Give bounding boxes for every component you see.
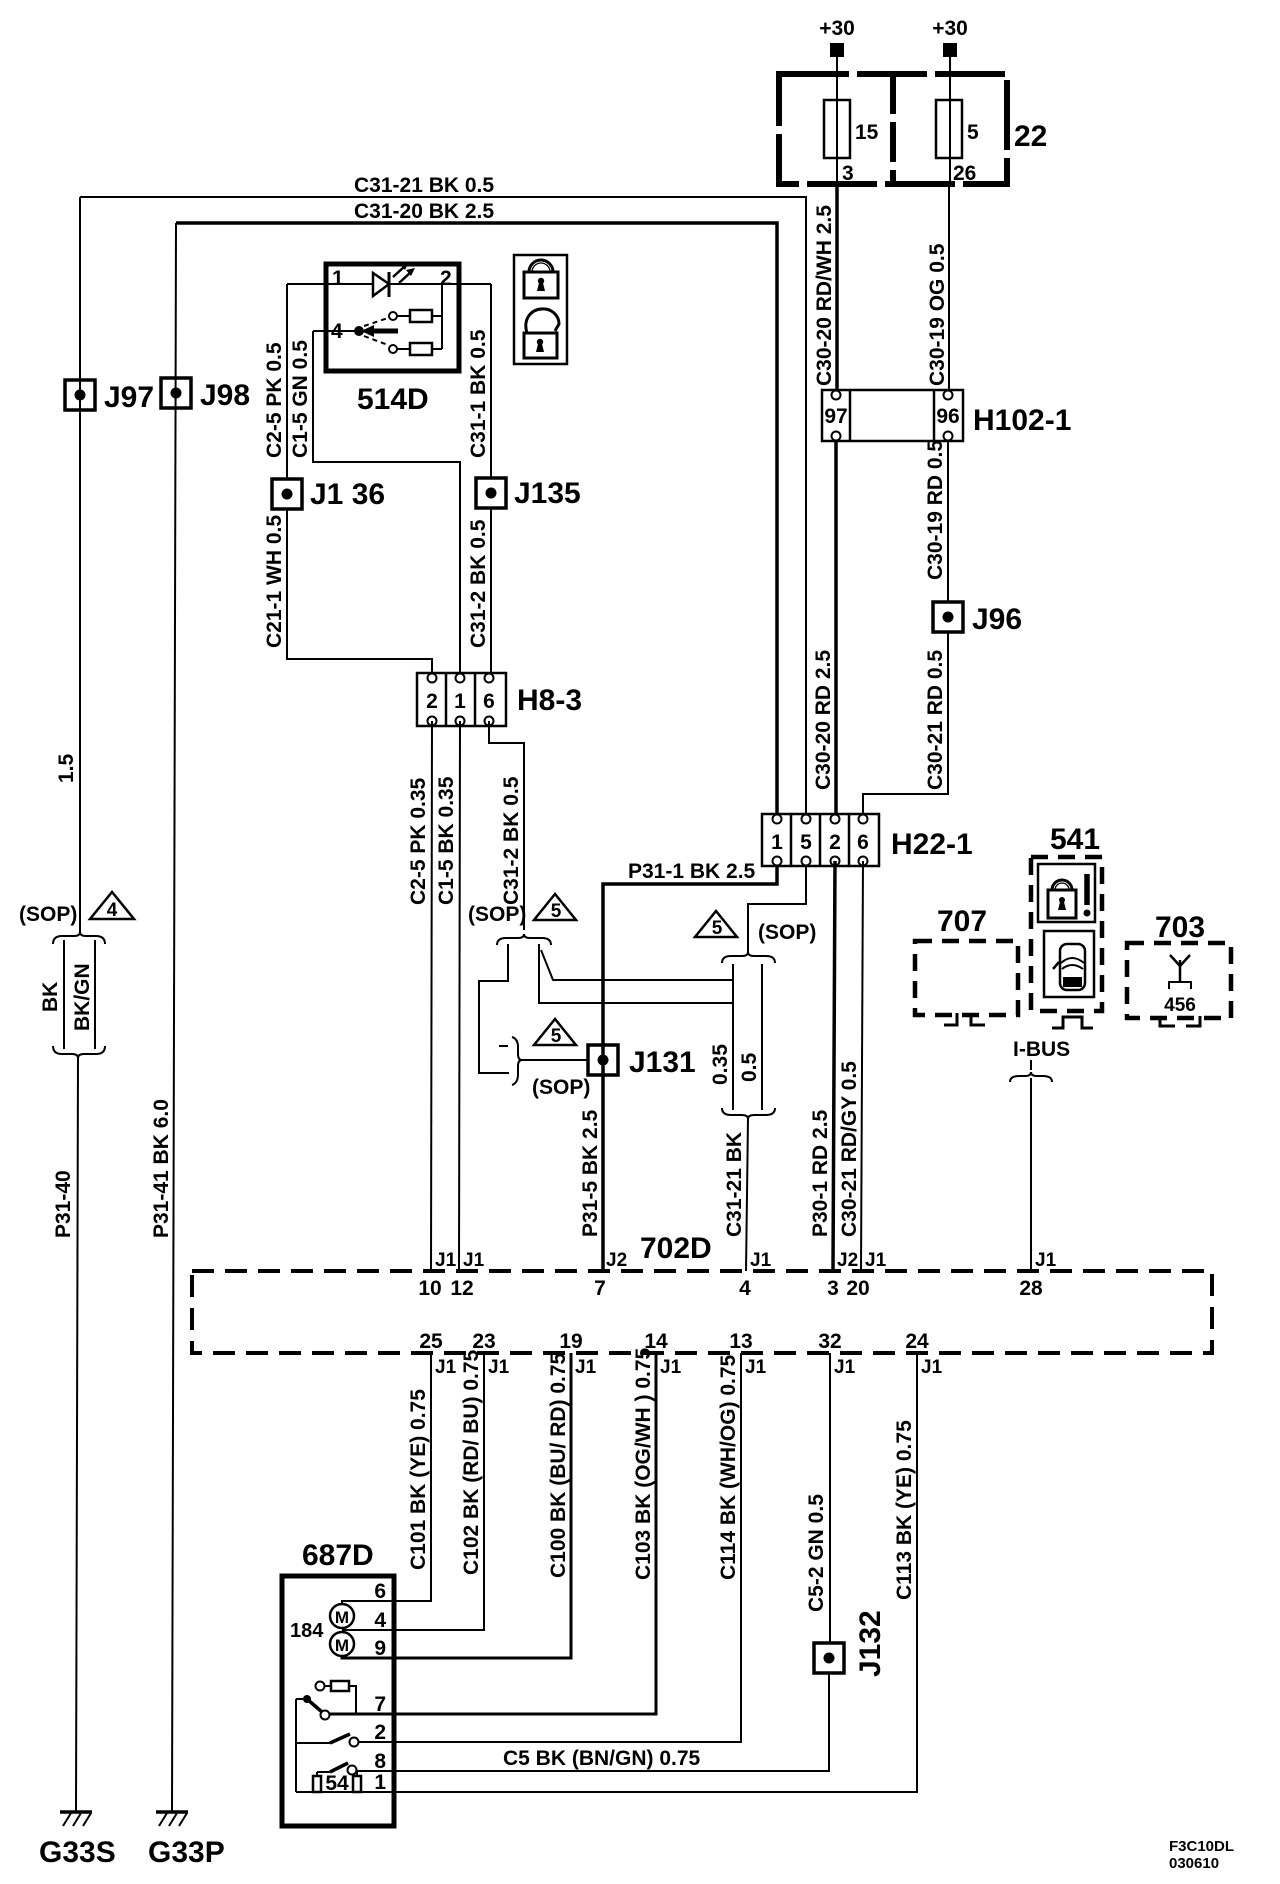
svg-text:(SOP): (SOP) <box>19 903 77 926</box>
wire C30-20 RD 2.5 (pin 97 to H22-1 pin 2) <box>812 441 836 819</box>
wire rail G33P (P31-41 BK 6.0) <box>150 223 176 1812</box>
wire splice branch to J131 <box>479 944 590 1099</box>
svg-text:C5-2 GN 0.5: C5-2 GN 0.5 <box>805 1494 828 1612</box>
component 541 (alarm status unit, dashed) <box>1031 823 1102 1028</box>
LED diode inside 514D <box>287 262 491 297</box>
svg-text:687D: 687D <box>302 1539 374 1572</box>
splice branch wires heading right (0.35 / 0.5) <box>539 944 733 1003</box>
wire C100 BK (BU/RD) 0.75 (702D pin 19 to 687D pin 9) <box>394 1352 571 1658</box>
fuse 5 (pin 26) <box>936 74 979 185</box>
connector H102-1 <box>822 390 1071 441</box>
connector H22-1 <box>762 814 973 866</box>
right splice braces with 0.35 / 0.5 strands <box>709 952 775 1119</box>
svg-text:P31-5 BK 2.5: P31-5 BK 2.5 <box>579 1109 602 1237</box>
svg-text:456: 456 <box>1164 995 1196 1016</box>
antenna symbol with 456 <box>1164 955 1196 1016</box>
svg-text:J1: J1 <box>435 1357 457 1378</box>
svg-text:J1: J1 <box>488 1357 510 1378</box>
I-BUS wire to 702D pin 28 <box>1010 1038 1070 1271</box>
resistor branch with terminal (pin 7 group) <box>316 1681 357 1714</box>
component 703 (antenna unit 456, dashed) <box>1127 911 1231 1026</box>
svg-text:5: 5 <box>800 831 812 854</box>
svg-text:J1: J1 <box>745 1357 767 1378</box>
car icon inside 541 <box>1044 931 1094 997</box>
wire C114 BK (WH/OG) 0.75 (702D pin 13 to 687D pin 2) <box>394 1353 741 1742</box>
svg-text:C31-21 BK 0.5: C31-21 BK 0.5 <box>354 174 494 197</box>
svg-text:10: 10 <box>418 1277 441 1300</box>
svg-text:+30: +30 <box>819 17 855 40</box>
junction J132 <box>814 1610 887 1677</box>
svg-text:J1: J1 <box>435 1250 457 1271</box>
svg-text:C31-20 BK 2.5: C31-20 BK 2.5 <box>354 200 494 223</box>
svg-text:P31-41 BK 6.0: P31-41 BK 6.0 <box>150 1099 173 1238</box>
junction J131 <box>588 1045 696 1079</box>
svg-text:F3C10DL: F3C10DL <box>1169 1838 1234 1855</box>
svg-text:1: 1 <box>332 267 344 290</box>
switch 1 (pin 7) <box>296 1695 394 1720</box>
wire C30-19 OG 0.5 <box>926 184 949 390</box>
svg-text:J98: J98 <box>200 379 250 412</box>
wire P30-1 RD 2.5 (H22-1 pin 2 to 702D pin 3) <box>809 861 835 1271</box>
702D bottom pin labels <box>419 1330 942 1378</box>
svg-text:C103 BK (OG/WH ) 0.75: C103 BK (OG/WH ) 0.75 <box>632 1347 655 1580</box>
svg-text:C100 BK (BU/ RD) 0.75: C100 BK (BU/ RD) 0.75 <box>547 1352 570 1578</box>
component 707 (dashed option box) <box>915 905 1018 1025</box>
svg-text:4: 4 <box>739 1277 751 1300</box>
wire C5 BK (BN/GN) 0.75 (J132 to 687D pin 8) <box>394 1673 829 1771</box>
svg-text:22: 22 <box>1014 120 1047 153</box>
svg-text:15: 15 <box>855 121 879 144</box>
svg-text:96: 96 <box>936 405 959 428</box>
svg-text:97: 97 <box>824 405 847 428</box>
svg-text:J97: J97 <box>104 381 154 414</box>
power terminal +30 (left) <box>819 17 855 74</box>
switch 2 (pin 2) <box>296 1734 394 1747</box>
wire C2-5 PK 0.35 (H8-3 pin 2 to 702D pin 10) <box>407 721 432 1271</box>
resistor lower inside 514D <box>397 284 442 355</box>
svg-text:32: 32 <box>818 1330 841 1353</box>
702D top pin labels <box>418 1250 1056 1300</box>
svg-text:7: 7 <box>594 1277 606 1300</box>
fuse 15 (pin 3) <box>824 74 879 185</box>
svg-text:J1: J1 <box>865 1250 887 1271</box>
svg-text:J135: J135 <box>514 477 581 510</box>
wire C31-2 BK 0.5 (H8-3 pin 6 to splice) <box>489 721 524 930</box>
svg-text:0.5: 0.5 <box>738 1052 761 1082</box>
svg-text:C31-2 BK 0.5: C31-2 BK 0.5 <box>467 519 490 648</box>
svg-text:23: 23 <box>472 1330 495 1353</box>
wire C101 BK (YE) 0.75 (702D pin 25 to 687D pin 6) <box>394 1353 431 1601</box>
svg-text:J1: J1 <box>463 1250 485 1271</box>
wire C30-21 RD/GY 0.5 (H22-1 pin 6 to 702D pin 20) <box>838 861 863 1271</box>
svg-text:J1: J1 <box>834 1357 856 1378</box>
junction J98 <box>161 378 250 412</box>
svg-text:C30-21 RD/GY 0.5: C30-21 RD/GY 0.5 <box>838 1061 861 1237</box>
svg-text:C114 BK (WH/OG) 0.75: C114 BK (WH/OG) 0.75 <box>717 1354 740 1580</box>
wire C1-5 GN 0.5 (514D pin 4 to H8-3 pin 1) <box>289 331 460 678</box>
svg-text:C30-20 RD/WH 2.5: C30-20 RD/WH 2.5 <box>813 205 836 386</box>
svg-text:J132: J132 <box>854 1610 887 1677</box>
svg-text:2: 2 <box>374 1721 386 1744</box>
svg-text:J1: J1 <box>660 1357 682 1378</box>
svg-text:19: 19 <box>559 1330 582 1353</box>
svg-text:5: 5 <box>551 1026 562 1047</box>
wire C31-1 BK 0.5 (514D pin 2 to J135) <box>467 284 491 478</box>
lock warning icon inside 541 <box>1038 864 1095 922</box>
svg-text:C30-19 OG 0.5: C30-19 OG 0.5 <box>926 243 949 386</box>
svg-text:H102-1: H102-1 <box>973 404 1071 437</box>
drawing code <box>1169 1838 1234 1872</box>
svg-text:5: 5 <box>967 121 979 144</box>
svg-text:P31-40: P31-40 <box>52 1170 75 1238</box>
svg-text:I-BUS: I-BUS <box>1013 1038 1070 1061</box>
svg-text:C31-1 BK 0.5: C31-1 BK 0.5 <box>467 329 490 458</box>
svg-text:G33S: G33S <box>39 1836 116 1869</box>
svg-text:C102 BK (RD/ BU) 0.75: C102 BK (RD/ BU) 0.75 <box>460 1349 483 1575</box>
svg-text:J1: J1 <box>921 1357 943 1378</box>
svg-text:24: 24 <box>905 1330 929 1353</box>
svg-text:030610: 030610 <box>1169 1855 1219 1872</box>
svg-text:J131: J131 <box>629 1046 696 1079</box>
svg-text:2: 2 <box>426 690 438 713</box>
svg-text:J2: J2 <box>837 1250 858 1271</box>
wire rail G33S (P31-40) <box>52 197 80 1812</box>
svg-text:1: 1 <box>374 1771 386 1794</box>
svg-text:M: M <box>335 1636 349 1655</box>
svg-text:J1: J1 <box>1035 1250 1057 1271</box>
svg-text:707: 707 <box>937 905 987 938</box>
wire C31-20 BK 2.5 (to H22-1 pin 1) <box>176 200 777 819</box>
svg-text:J1 36: J1 36 <box>310 478 385 511</box>
svg-text:J1: J1 <box>575 1357 597 1378</box>
svg-text:12: 12 <box>450 1277 473 1300</box>
svg-text:702D: 702D <box>640 1232 712 1265</box>
wire C30-19 RD 0.5 (pin 96 to J96) <box>924 440 948 602</box>
svg-text:C2-5 PK 0.35: C2-5 PK 0.35 <box>407 777 430 905</box>
svg-text:4: 4 <box>374 1609 386 1632</box>
svg-text:184: 184 <box>290 1620 324 1642</box>
remote transmitter 514D <box>326 264 459 416</box>
svg-text:C21-1 WH 0.5: C21-1 WH 0.5 <box>263 515 286 648</box>
svg-text:C5 BK (BN/GN) 0.75: C5 BK (BN/GN) 0.75 <box>503 1747 701 1770</box>
svg-text:6: 6 <box>483 690 495 713</box>
motor M upper (pin 6 / 4) <box>330 1601 394 1628</box>
svg-text:J1: J1 <box>750 1250 772 1271</box>
svg-text:6: 6 <box>374 1580 386 1603</box>
svg-text:G33P: G33P <box>148 1836 225 1869</box>
wire C31-2 BK 0.5 (J135 to H8-3 pin 6) <box>467 508 491 678</box>
resistor upper inside 514D <box>397 310 442 322</box>
svg-text:C31-2 BK 0.5: C31-2 BK 0.5 <box>500 776 523 905</box>
svg-text:5: 5 <box>712 918 723 939</box>
svg-text:1: 1 <box>771 831 783 854</box>
svg-text:5: 5 <box>551 901 562 922</box>
svg-text:(SOP): (SOP) <box>468 903 526 926</box>
svg-text:4: 4 <box>107 900 118 921</box>
switch 3 with resistors 54 (pin 8 / 1) <box>296 1763 394 1795</box>
motor M lower (pin 4 / 9) <box>330 1630 394 1658</box>
ground G33P <box>148 1812 225 1869</box>
wire from H22-1 pin 5 to right splice <box>695 861 816 952</box>
wire C21-1 WH 0.5 (J136 to H8-3 pin 2) <box>263 509 432 678</box>
wire C1-5 BK 0.35 (H8-3 pin 1 to 702D pin 12) <box>435 721 460 1271</box>
svg-text:+30: +30 <box>932 17 968 40</box>
door lock unit 687D <box>282 1539 394 1826</box>
svg-text:2: 2 <box>829 831 841 854</box>
svg-text:BK: BK <box>39 982 62 1012</box>
svg-text:8: 8 <box>374 1750 386 1773</box>
svg-text:514D: 514D <box>357 383 429 416</box>
wire P31-1 BK 2.5 (H22-1 pin 1 to J131 rail) <box>579 860 777 1271</box>
svg-text:H8-3: H8-3 <box>517 684 582 717</box>
svg-text:C1-5 BK 0.35: C1-5 BK 0.35 <box>435 776 458 905</box>
wire C113 BK (YE) 0.75 (702D pin 24 to 687D pin 1) <box>394 1353 917 1792</box>
svg-text:C1-5 GN 0.5: C1-5 GN 0.5 <box>289 340 312 458</box>
svg-text:J96: J96 <box>972 603 1022 636</box>
svg-text:13: 13 <box>729 1330 752 1353</box>
common rail inside 687D <box>295 1699 297 1792</box>
svg-text:P30-1 RD 2.5: P30-1 RD 2.5 <box>809 1109 832 1237</box>
svg-text:M: M <box>335 1608 349 1627</box>
svg-text:0.35: 0.35 <box>709 1044 732 1085</box>
fuse box 22 <box>779 74 1047 184</box>
svg-text:3: 3 <box>842 162 854 185</box>
lock / unlock indicator icons <box>514 255 567 364</box>
splice brace (SOP) under H8-3 pin 6 <box>468 894 576 945</box>
svg-text:C30-21 RD 0.5: C30-21 RD 0.5 <box>924 650 947 790</box>
junction J136 <box>272 478 385 511</box>
svg-text:P31-1 BK 2.5: P31-1 BK 2.5 <box>628 860 756 883</box>
wire C31-21 BK (splice to 702D pin 4) <box>723 1119 748 1271</box>
svg-text:H22-1: H22-1 <box>891 828 973 861</box>
power terminal +30 (right) <box>932 17 968 74</box>
wire C30-21 RD 0.5 (J96 to H22-1 pin 6) <box>863 632 948 819</box>
junction J135 <box>476 477 581 510</box>
svg-text:(SOP): (SOP) <box>532 1076 590 1099</box>
svg-text:25: 25 <box>419 1330 443 1353</box>
wire C30-20 RD/WH 2.5 <box>813 184 837 390</box>
svg-text:C31-21 BK: C31-21 BK <box>723 1132 746 1237</box>
svg-text:(SOP): (SOP) <box>758 921 816 944</box>
(SOP) splice triangle 4 with BK / BK-GN alternatives <box>19 892 134 1058</box>
svg-text:C113 BK (YE) 0.75: C113 BK (YE) 0.75 <box>893 1420 916 1600</box>
svg-text:6: 6 <box>857 831 869 854</box>
svg-text:541: 541 <box>1050 823 1100 856</box>
svg-text:26: 26 <box>953 162 976 185</box>
control module 702D (dashed connector strip) <box>192 1232 1212 1353</box>
svg-text:1.5: 1.5 <box>55 753 78 783</box>
svg-text:C30-20 RD 2.5: C30-20 RD 2.5 <box>812 650 835 790</box>
ground G33S <box>39 1812 116 1869</box>
svg-text:28: 28 <box>1019 1277 1043 1300</box>
svg-text:C30-19 RD 0.5: C30-19 RD 0.5 <box>924 440 947 580</box>
svg-text:20: 20 <box>846 1277 869 1300</box>
svg-text:3: 3 <box>827 1277 839 1300</box>
wire C5-2 GN 0.5 (702D pin 32 to J132) <box>805 1353 830 1643</box>
junction J97 <box>65 380 154 414</box>
svg-text:C2-5 PK 0.5: C2-5 PK 0.5 <box>263 342 286 458</box>
svg-text:J2: J2 <box>606 1250 627 1271</box>
wire C103 BK (OG/WH) 0.75 (702D pin 14 to 687D pin 7) <box>394 1347 656 1714</box>
junction J96 <box>933 602 1022 636</box>
connector H8-3 <box>417 673 582 726</box>
wire C2-5 PK 0.5 (514D pin 1 to J136) <box>263 284 287 479</box>
svg-text:1: 1 <box>454 690 466 713</box>
rotary switch inside 514D <box>313 312 398 353</box>
svg-text:703: 703 <box>1155 911 1205 944</box>
wire C31-21 BK 0.5 (top horizontal to H22-1 pin 5) <box>80 174 806 819</box>
svg-text:C101 BK (YE) 0.75: C101 BK (YE) 0.75 <box>407 1389 430 1570</box>
svg-text:BK/GN: BK/GN <box>71 963 94 1031</box>
wire C102 BK (RD/BU) 0.75 (702D pin 23 to 687D pin 4) <box>394 1349 484 1630</box>
